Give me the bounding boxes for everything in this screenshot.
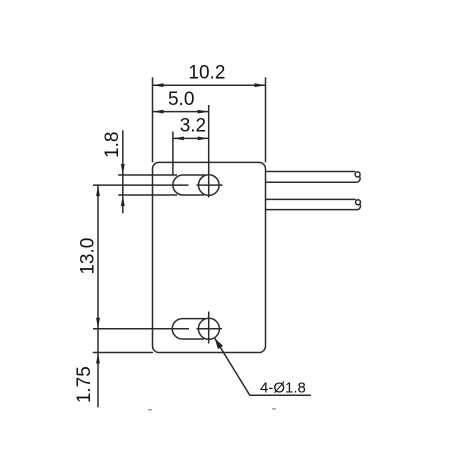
extension line left of 3.2 xyxy=(172,132,174,176)
svg-text:10.2: 10.2 xyxy=(188,63,225,84)
dimension 3.2 xyxy=(173,137,209,141)
bottom slot hole xyxy=(172,319,205,339)
extension line bottom of slot (1.8) xyxy=(118,194,177,196)
lead wire 2 xyxy=(266,199,361,209)
lead wire 1 xyxy=(266,172,361,183)
dimension text 13.0 xyxy=(78,238,99,275)
bottom hole centerline horizontal xyxy=(93,328,222,330)
svg-text:13.0: 13.0 xyxy=(78,238,99,275)
svg-text:1.8: 1.8 xyxy=(102,132,123,158)
extension line left of 10.2 xyxy=(152,77,154,162)
bottom hole centerline vertical xyxy=(208,312,210,344)
dimension 10.2 xyxy=(153,83,266,87)
top hole circle xyxy=(199,175,220,196)
leader line 4-d1.8 xyxy=(215,338,311,395)
extension line body bottom (1.75) xyxy=(93,352,153,354)
svg-text:5.0: 5.0 xyxy=(168,89,194,110)
extension line top of slot (1.8) xyxy=(118,174,177,176)
top slot hole xyxy=(173,175,205,195)
svg-text:3.2: 3.2 xyxy=(180,116,206,137)
dimension text 3.2 xyxy=(180,116,206,137)
dimension text 5.0 xyxy=(168,89,194,110)
dimension 1.8 vertical xyxy=(121,130,125,213)
dimension text 1.8 xyxy=(102,132,123,158)
svg-text:1.75: 1.75 xyxy=(74,366,95,403)
top hole centerline vertical xyxy=(208,105,210,198)
top hole centerline horizontal xyxy=(93,184,223,186)
bottom hole circle xyxy=(198,318,219,339)
label text 4-d1.8 xyxy=(260,380,306,397)
svg-text:4-Ø1.8: 4-Ø1.8 xyxy=(260,380,306,397)
extension line right of 10.2 xyxy=(265,77,267,162)
speck 2 xyxy=(272,408,276,409)
dimension text 1.75 xyxy=(74,366,95,403)
speck 1 xyxy=(148,409,152,410)
dimension 13.0 and 1.75 shared line xyxy=(96,185,100,407)
dimension 5.0 xyxy=(153,110,209,114)
dimension text 10.2 xyxy=(188,63,225,84)
body outline xyxy=(153,162,266,352)
